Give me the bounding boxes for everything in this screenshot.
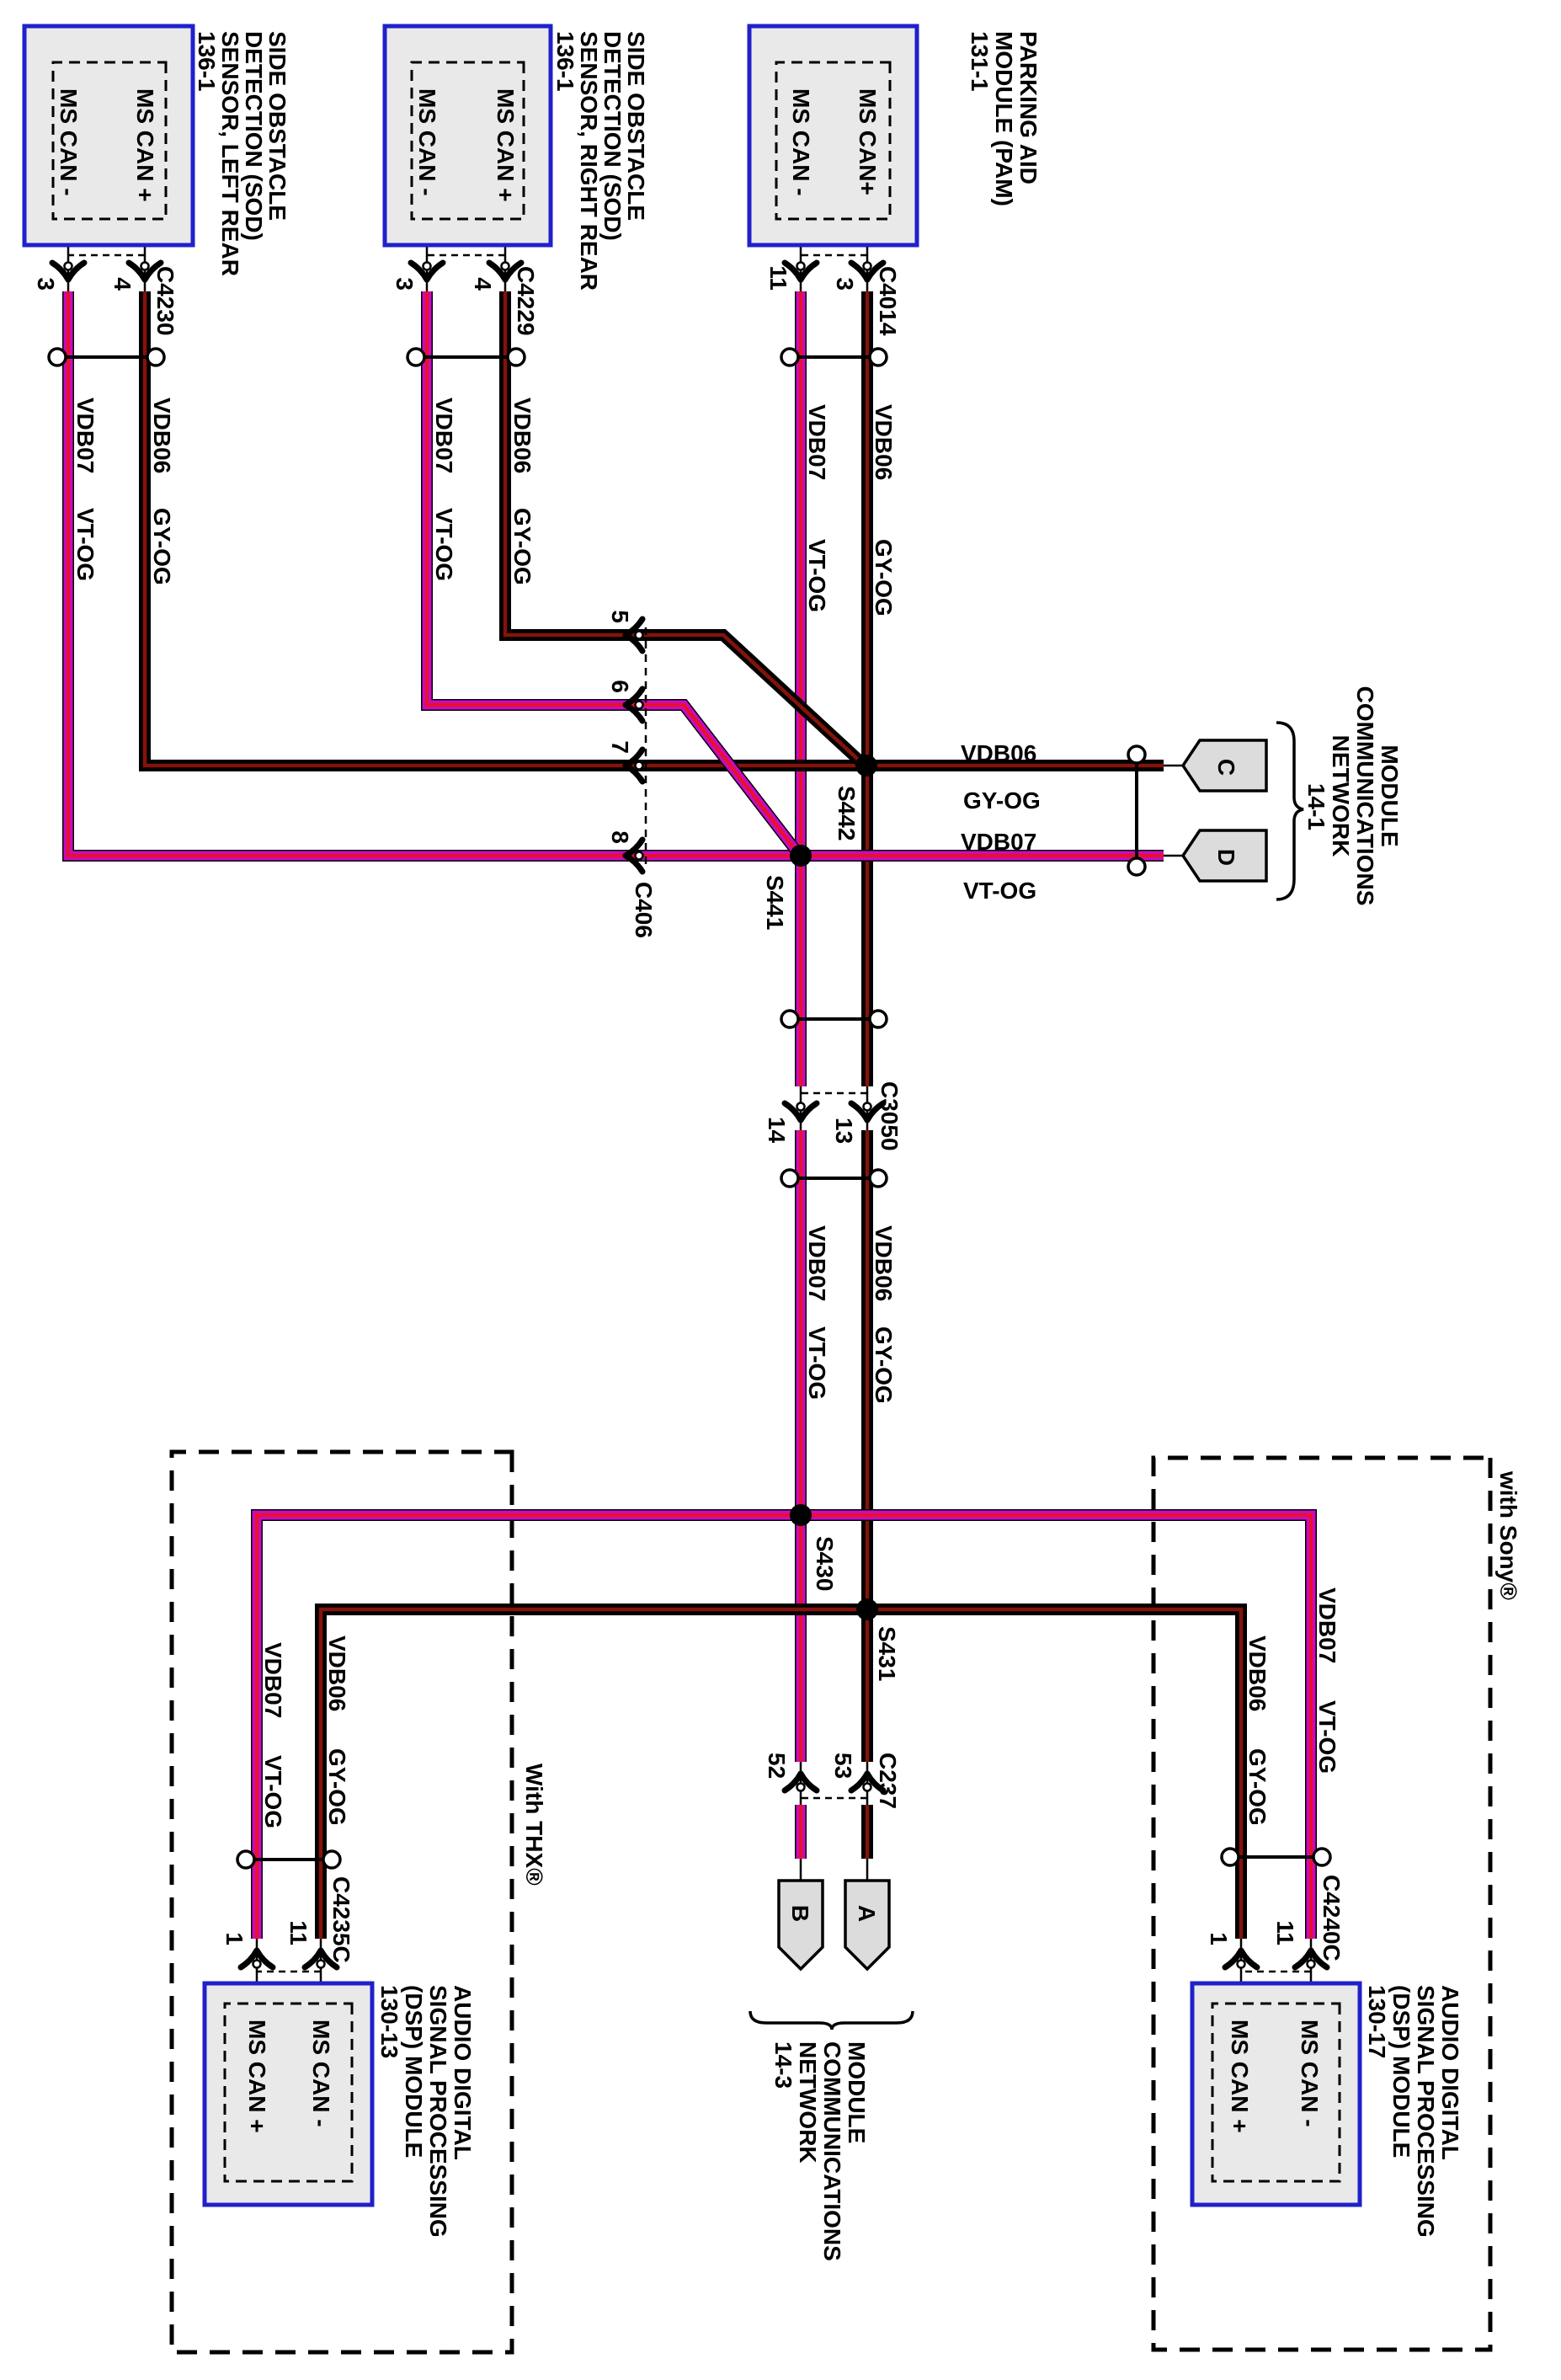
svg-text:COMMUNICATIONS: COMMUNICATIONS: [819, 2041, 845, 2261]
svg-text:VDB07: VDB07: [260, 1642, 286, 1718]
svg-text:GY-OG: GY-OG: [324, 1748, 350, 1826]
svg-text:VT-OG: VT-OG: [260, 1755, 286, 1828]
svg-text:D: D: [1213, 849, 1239, 866]
svg-text:GY-OG: GY-OG: [871, 1326, 897, 1404]
svg-text:VDB06: VDB06: [871, 1225, 897, 1301]
svg-text:VDB07: VDB07: [431, 398, 457, 473]
svg-text:GY-OG: GY-OG: [149, 508, 175, 585]
svg-text:7: 7: [607, 740, 633, 754]
svg-text:MS CAN -: MS CAN -: [56, 88, 82, 196]
svg-text:VT-OG: VT-OG: [804, 1326, 830, 1400]
svg-text:4: 4: [109, 277, 136, 291]
svg-text:MODULE (PAM): MODULE (PAM): [991, 31, 1017, 206]
svg-text:4: 4: [470, 277, 496, 291]
svg-text:C: C: [1213, 759, 1239, 776]
svg-text:VT-OG: VT-OG: [1314, 1700, 1340, 1774]
svg-text:GY-OG: GY-OG: [1244, 1748, 1271, 1826]
svg-text:With THX®: With THX®: [521, 1764, 547, 1886]
svg-text:VT-OG: VT-OG: [963, 878, 1036, 904]
svg-text:GY-OG: GY-OG: [871, 539, 897, 616]
svg-text:MS CAN -: MS CAN -: [308, 2020, 334, 2127]
svg-text:MS CAN+: MS CAN+: [855, 88, 881, 195]
svg-text:C4014: C4014: [875, 266, 901, 336]
svg-text:VDB06: VDB06: [961, 740, 1036, 766]
svg-text:MS CAN -: MS CAN -: [414, 88, 440, 196]
svg-text:VT-OG: VT-OG: [72, 508, 99, 581]
svg-text:A: A: [854, 1905, 880, 1922]
svg-text:S430: S430: [812, 1536, 838, 1591]
svg-text:130-13: 130-13: [376, 1985, 402, 2058]
svg-text:MS CAN +: MS CAN +: [493, 88, 519, 202]
svg-text:VDB07: VDB07: [1314, 1588, 1340, 1663]
svg-text:MS CAN -: MS CAN -: [788, 88, 814, 196]
svg-text:1: 1: [1206, 1932, 1232, 1945]
svg-text:GY-OG: GY-OG: [963, 787, 1041, 814]
svg-text:11: 11: [1272, 1920, 1298, 1945]
svg-text:with Sony®: with Sony®: [1495, 1470, 1521, 1600]
svg-text:14: 14: [764, 1117, 790, 1144]
svg-text:14-3: 14-3: [770, 2041, 796, 2089]
svg-text:C406: C406: [631, 882, 657, 938]
svg-text:VDB07: VDB07: [804, 1225, 830, 1301]
svg-text:11: 11: [285, 1920, 312, 1945]
svg-text:PARKING AID: PARKING AID: [1015, 31, 1042, 184]
svg-text:NETWORK: NETWORK: [1328, 735, 1354, 857]
svg-text:MS CAN +: MS CAN +: [1227, 2020, 1253, 2133]
svg-text:SIDE OBSTACLE: SIDE OBSTACLE: [264, 31, 290, 221]
svg-text:VDB06: VDB06: [871, 404, 897, 480]
svg-text:3: 3: [832, 277, 858, 291]
svg-text:13: 13: [831, 1118, 857, 1144]
svg-text:AUDIO DIGITAL: AUDIO DIGITAL: [450, 1985, 476, 2160]
svg-text:MS CAN -: MS CAN -: [1297, 2020, 1323, 2127]
svg-text:VDB07: VDB07: [804, 404, 830, 480]
svg-text:8: 8: [607, 830, 633, 844]
svg-text:5: 5: [607, 610, 633, 623]
svg-text:SENSOR, LEFT REAR: SENSOR, LEFT REAR: [217, 31, 243, 276]
svg-text:VDB06: VDB06: [149, 398, 175, 473]
svg-text:1: 1: [221, 1932, 248, 1945]
svg-text:C237: C237: [875, 1753, 901, 1809]
svg-text:VT-OG: VT-OG: [431, 508, 457, 581]
svg-text:6: 6: [607, 680, 633, 693]
svg-text:11: 11: [765, 265, 791, 291]
svg-text:14-1: 14-1: [1303, 783, 1329, 830]
svg-text:MS CAN +: MS CAN +: [244, 2020, 270, 2133]
svg-text:NETWORK: NETWORK: [795, 2041, 821, 2164]
svg-text:VDB07: VDB07: [961, 829, 1036, 855]
svg-text:C4230: C4230: [152, 266, 178, 336]
svg-text:C4240C: C4240C: [1319, 1875, 1345, 1961]
svg-text:DETECTION (SOD): DETECTION (SOD): [241, 31, 267, 241]
svg-text:130-17: 130-17: [1364, 1985, 1390, 2058]
svg-text:3: 3: [33, 277, 59, 291]
svg-text:S441: S441: [762, 875, 788, 930]
svg-text:(DSP) MODULE: (DSP) MODULE: [1388, 1985, 1414, 2158]
svg-text:VDB06: VDB06: [324, 1636, 350, 1711]
svg-text:MS CAN +: MS CAN +: [132, 88, 158, 202]
svg-text:131-1: 131-1: [967, 31, 993, 92]
svg-text:COMMUNICATIONS: COMMUNICATIONS: [1352, 686, 1378, 906]
svg-text:VDB07: VDB07: [72, 398, 99, 473]
svg-text:B: B: [787, 1905, 813, 1922]
svg-text:DETECTION (SOD): DETECTION (SOD): [599, 31, 626, 241]
svg-text:S442: S442: [834, 786, 860, 840]
svg-text:53: 53: [830, 1753, 856, 1779]
svg-text:VDB06: VDB06: [509, 398, 535, 473]
svg-text:S431: S431: [874, 1626, 900, 1681]
svg-text:C4235C: C4235C: [328, 1876, 354, 1963]
svg-text:GY-OG: GY-OG: [509, 508, 535, 585]
svg-text:3: 3: [392, 277, 418, 291]
svg-text:52: 52: [764, 1753, 790, 1779]
svg-text:(DSP) MODULE: (DSP) MODULE: [401, 1985, 427, 2158]
svg-text:VDB06: VDB06: [1244, 1636, 1271, 1711]
svg-text:C3050: C3050: [876, 1081, 903, 1151]
svg-text:SENSOR, RIGHT REAR: SENSOR, RIGHT REAR: [576, 31, 602, 291]
svg-text:C4229: C4229: [513, 266, 539, 336]
svg-text:136-1: 136-1: [552, 31, 578, 92]
svg-text:MODULE: MODULE: [1377, 744, 1403, 846]
svg-text:VT-OG: VT-OG: [804, 539, 830, 612]
svg-text:AUDIO DIGITAL: AUDIO DIGITAL: [1437, 1985, 1463, 2160]
svg-text:SIGNAL PROCESSING: SIGNAL PROCESSING: [1413, 1985, 1439, 2238]
svg-text:SIGNAL PROCESSING: SIGNAL PROCESSING: [425, 1985, 451, 2238]
svg-text:MODULE: MODULE: [844, 2041, 870, 2143]
svg-text:SIDE OBSTACLE: SIDE OBSTACLE: [623, 31, 649, 221]
svg-text:136-1: 136-1: [194, 31, 220, 92]
